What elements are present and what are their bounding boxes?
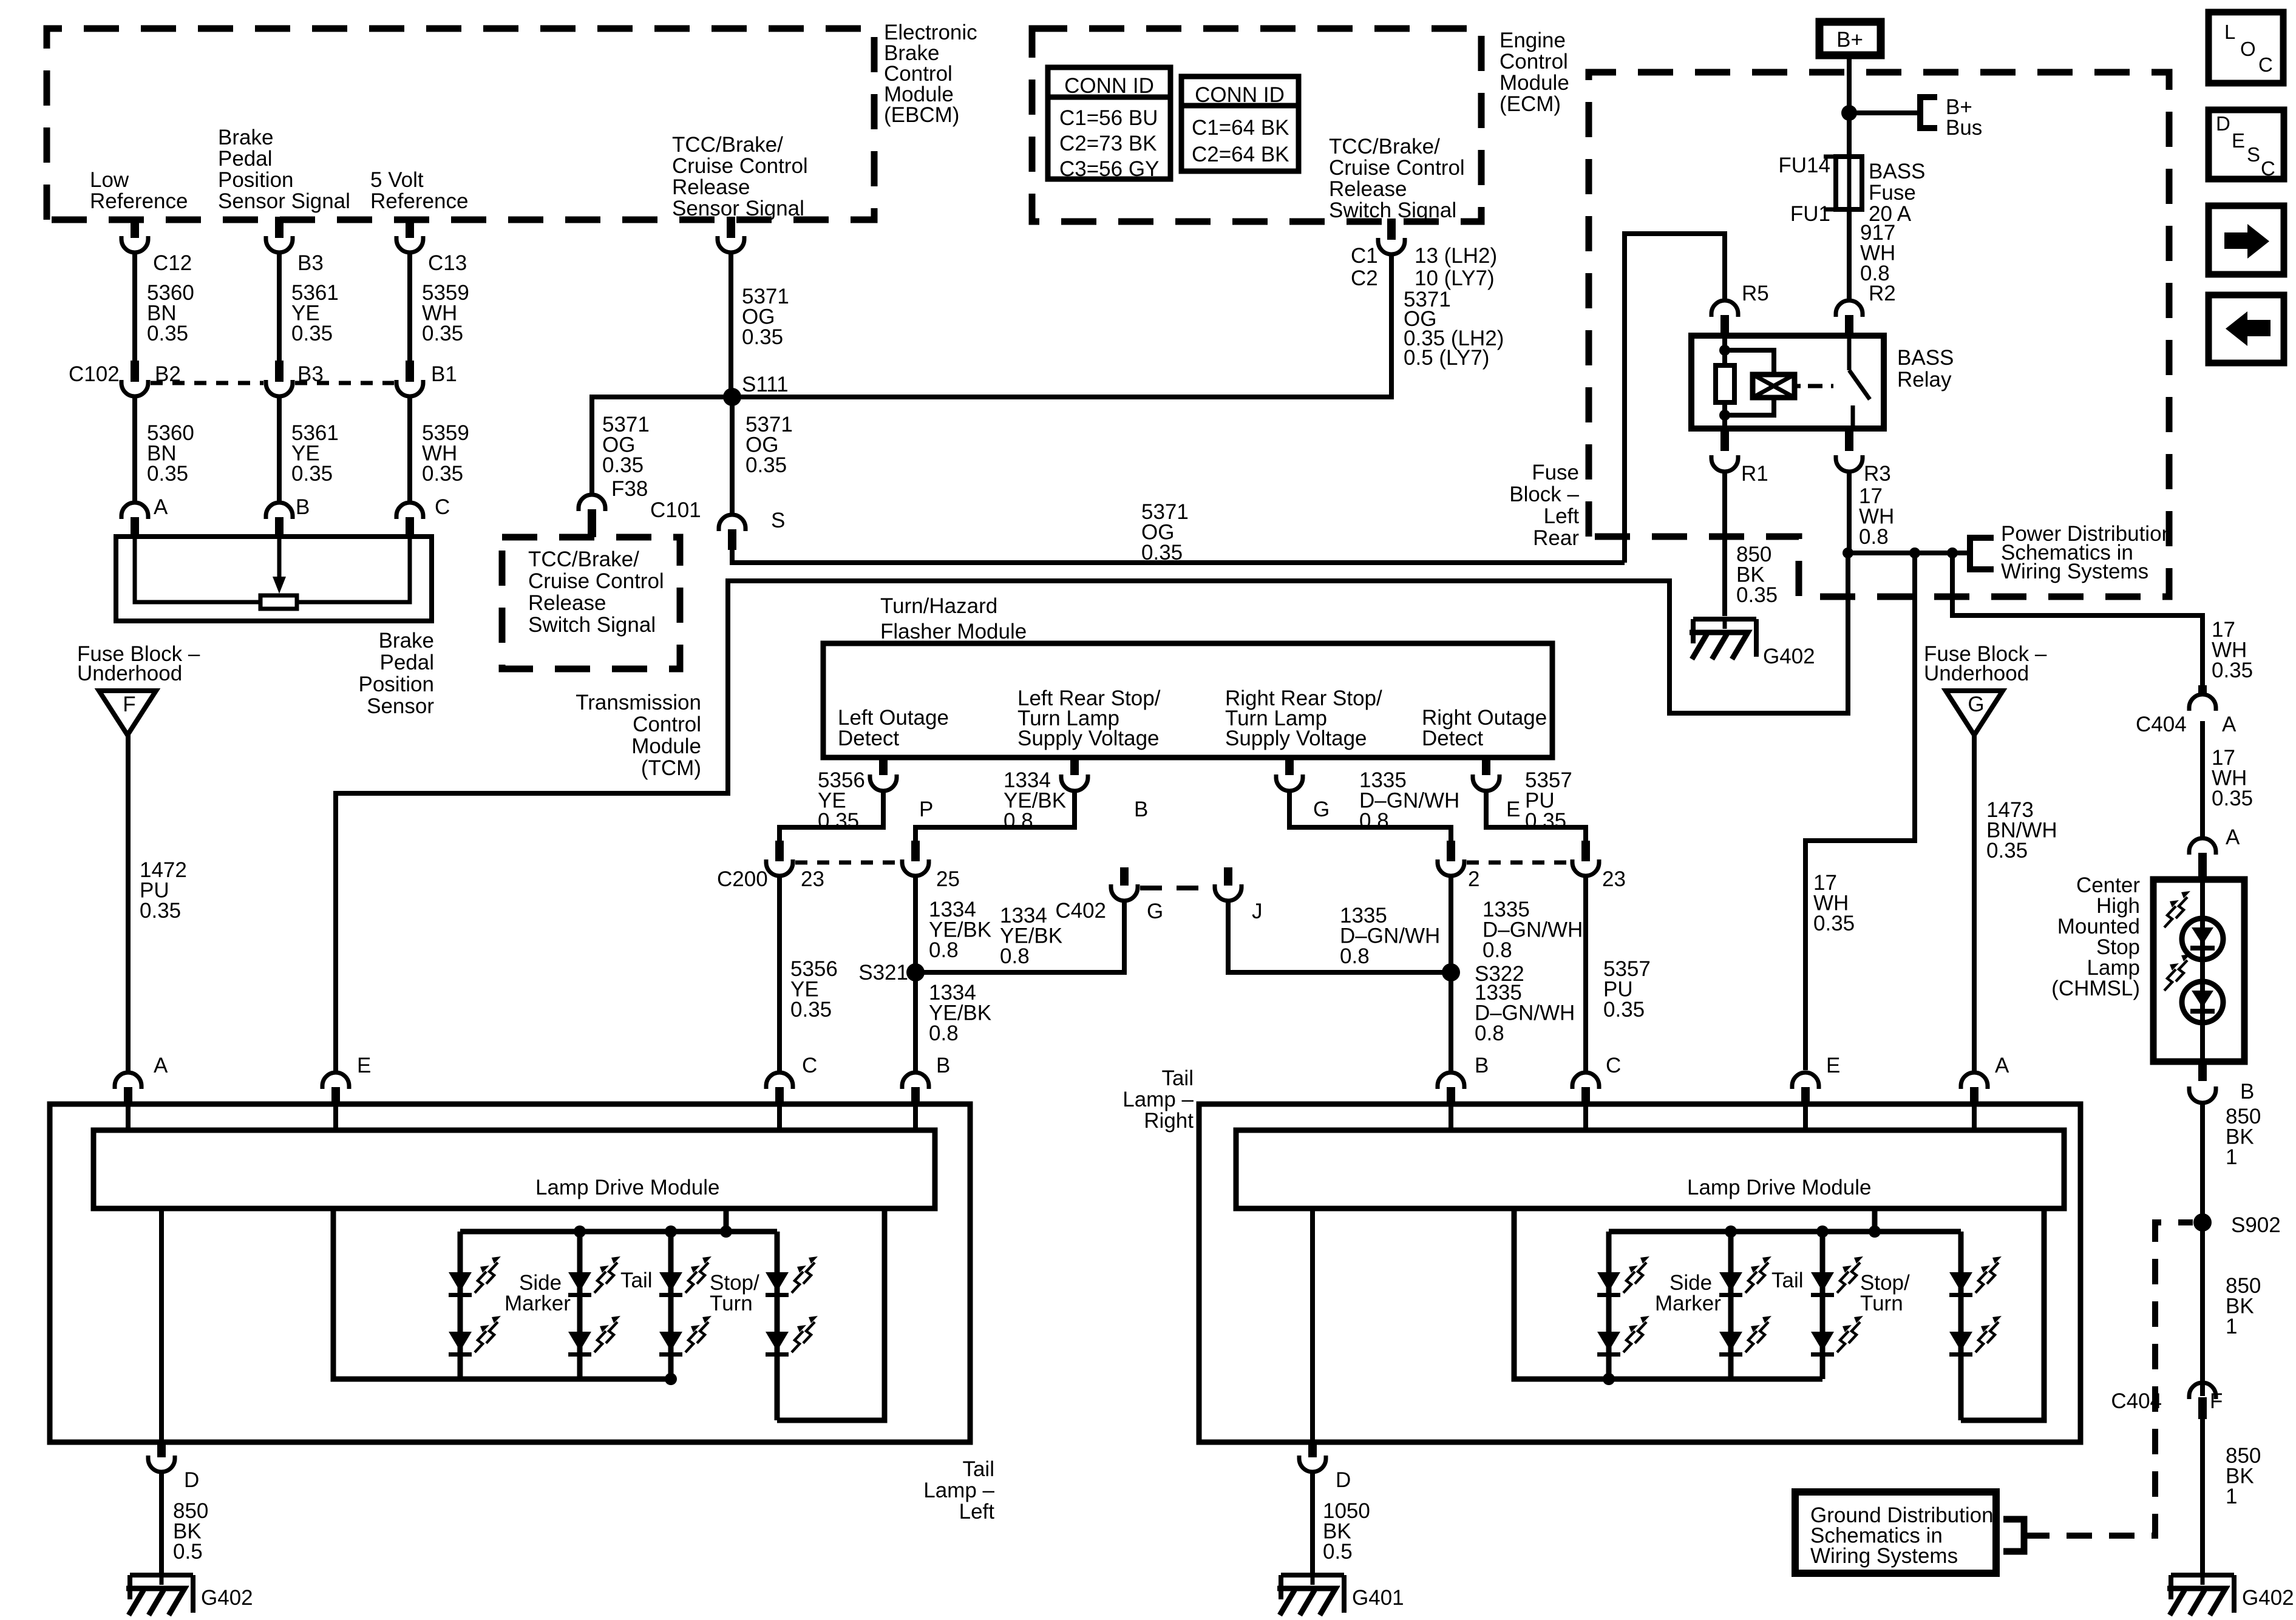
wire 5360 BN 0.35 (C102 B2 to sensor pin A)	[132, 395, 137, 501]
svg-text:B1: B1	[431, 362, 457, 386]
feed wire from Lamp Drive Module to LED bus (right)	[1872, 1208, 1878, 1232]
svg-text:G402: G402	[201, 1586, 253, 1610]
svg-text:F38: F38	[611, 477, 648, 501]
svg-text:CONN ID: CONN ID	[1195, 83, 1285, 107]
ground G402 (left tail lamp)	[130, 1573, 193, 1578]
svg-text:C: C	[1606, 1054, 1621, 1077]
component box Center High Mounted Stop Lamp (CHMSL)	[2153, 879, 2244, 1062]
junction dot (17WH to CHMSL)	[1947, 547, 1958, 558]
dashed harness line C402	[1140, 886, 1214, 890]
wire 1334 YE/BK from B to C200 pin 25	[915, 790, 1075, 847]
svg-text:0.35: 0.35	[147, 462, 188, 486]
svg-text:(CHMSL): (CHMSL)	[2051, 977, 2140, 1000]
svg-text:C: C	[435, 495, 450, 519]
wire 5371 OG coil feed from C101/S-wire up to R5	[1625, 234, 1725, 563]
relay switch common from R2	[1847, 336, 1852, 370]
svg-text:Turn/Hazard: Turn/Hazard	[880, 594, 997, 618]
connector C404 pin A	[2198, 685, 2207, 694]
right lamp internal pin wires into Lamp Drive Module	[1449, 1104, 1453, 1130]
connector pin R5 of BASS Relay	[1711, 300, 1738, 317]
LED string Stop/Turn (right lamp)	[1958, 1232, 1964, 1420]
connector pin R1 of BASS Relay	[1720, 429, 1729, 451]
connector C102 pin B2	[131, 361, 139, 382]
svg-text:(EBCM): (EBCM)	[884, 103, 959, 127]
svg-text:Switch Signal: Switch Signal	[528, 613, 656, 637]
svg-text:B3: B3	[297, 251, 324, 275]
svg-text:Engine: Engine	[1500, 29, 1566, 52]
component box Brake Pedal Position Sensor	[116, 537, 432, 621]
svg-text:0.35: 0.35	[2212, 659, 2253, 682]
dashed harness line C200 right pair	[1467, 861, 1570, 865]
svg-text:D: D	[1336, 1468, 1351, 1492]
connector pin R2 of BASS Relay	[1836, 300, 1863, 317]
wire 17 WH 0.35 from C404 A to CHMSL A	[2200, 721, 2205, 838]
svg-text:S: S	[771, 509, 785, 532]
svg-text:O: O	[2240, 38, 2256, 60]
connector C200 pin 23 (right)	[1581, 841, 1590, 861]
LED string Tail (right lamp)	[1820, 1232, 1826, 1379]
sensor internal wire from pin A to resistor	[135, 537, 260, 602]
ground G402 (right, CHMSL)	[2171, 1573, 2234, 1578]
svg-text:C1: C1	[1351, 244, 1378, 268]
wire 1334 YE/BK 0.8 from C200 25 to S321	[913, 875, 918, 972]
svg-text:R3: R3	[1864, 462, 1891, 486]
wire 17 WH 0.35 from junction to C404 A (CHMSL feed)	[1952, 553, 2203, 685]
svg-text:0.8: 0.8	[929, 1022, 959, 1045]
connector pin C12 of EBCM	[131, 217, 139, 238]
svg-text:Sensor: Sensor	[367, 694, 434, 718]
svg-text:S321: S321	[858, 961, 908, 985]
svg-text:0.35: 0.35	[2212, 787, 2253, 810]
svg-text:10 (LY7): 10 (LY7)	[1415, 266, 1495, 290]
svg-text:C2=64 BK: C2=64 BK	[1192, 143, 1289, 166]
fuse FU14/FU1 BASS Fuse 20 A	[1836, 157, 1862, 209]
connector pin C of left tail lamp	[766, 1073, 793, 1089]
svg-text:Block –: Block –	[1509, 483, 1579, 506]
connector C102 pin B1	[406, 361, 414, 382]
svg-text:C200: C200	[717, 867, 768, 891]
dashed harness line C200 left pair	[795, 861, 900, 865]
svg-text:R5: R5	[1742, 282, 1769, 305]
svg-text:Supply Voltage: Supply Voltage	[1017, 727, 1160, 750]
LED string Side Marker (right lamp)	[1606, 1232, 1612, 1379]
module box Turn/Hazard Flasher Module	[823, 643, 1552, 757]
junction dot at R3 wire and 17WH bus	[1843, 547, 1853, 558]
svg-text:0.35: 0.35	[291, 322, 333, 345]
junction dot at B+ bus tap	[1841, 105, 1857, 121]
svg-text:Release: Release	[1329, 177, 1407, 201]
svg-text:E: E	[1506, 798, 1520, 821]
svg-text:Position: Position	[358, 673, 434, 696]
relay actuation dashed link	[1797, 384, 1801, 388]
svg-text:Brake: Brake	[218, 126, 273, 149]
svg-text:C101: C101	[650, 498, 701, 522]
svg-text:Control: Control	[1500, 50, 1568, 73]
reference box Ground Distribution Schematics in Wiring Systems	[1795, 1492, 1996, 1573]
svg-text:TCC/Brake/: TCC/Brake/	[672, 133, 783, 157]
svg-text:Brake: Brake	[379, 629, 434, 652]
wire 1335 D-GN/WH 0.8 from S322 to right lamp B	[1449, 972, 1453, 1071]
left Stop/Turn return wire	[777, 1208, 885, 1420]
svg-text:C2: C2	[1351, 266, 1378, 290]
svg-text:G: G	[1968, 693, 1984, 716]
svg-text:0.35: 0.35	[602, 453, 644, 477]
svg-text:F: F	[123, 693, 135, 716]
svg-text:0.35: 0.35	[742, 325, 783, 349]
svg-text:Supply Voltage: Supply Voltage	[1225, 727, 1367, 750]
wire 5361 YE 0.35 (C102 B3 to sensor pin B)	[277, 395, 282, 501]
svg-text:Module: Module	[631, 734, 701, 758]
svg-text:Transmission: Transmission	[576, 691, 701, 714]
svg-text:R2: R2	[1869, 282, 1896, 305]
svg-text:Cruise Control: Cruise Control	[1329, 156, 1465, 180]
bracket from Ground Distribution box	[2003, 1519, 2024, 1551]
svg-text:C: C	[2258, 53, 2273, 76]
ground G401 (right tail lamp)	[1281, 1573, 1344, 1578]
svg-text:23: 23	[1602, 867, 1626, 891]
LED string 2 (right lamp)	[1728, 1232, 1734, 1379]
svg-text:S902: S902	[2231, 1213, 2281, 1237]
dashed harness line of connector C102	[151, 381, 263, 385]
icon arrow left	[2209, 295, 2284, 363]
CHMSL internal wire	[2200, 879, 2205, 1062]
connector C404 pin F	[2189, 1383, 2216, 1399]
wire 5360 BN 0.35 (EBCM C12 to C102 B2)	[132, 251, 137, 371]
svg-text:0.35: 0.35	[1603, 998, 1645, 1022]
resistor element of Brake Pedal Position Sensor	[260, 595, 297, 609]
svg-text:Module: Module	[1500, 71, 1569, 95]
connector C402 pin J	[1224, 867, 1232, 886]
svg-text:0.35: 0.35	[1986, 839, 2028, 863]
relay coil wiring	[1725, 350, 1774, 374]
connector pin E of left tail lamp	[322, 1073, 349, 1089]
wire 1473 BN/WH 0.35 from fuse block G to right tail lamp A	[1972, 734, 1977, 1071]
connector pin A of Brake Pedal Position Sensor	[121, 503, 148, 519]
right lamp LED return bus	[1514, 1208, 1822, 1379]
svg-text:A: A	[154, 1054, 168, 1077]
wire 5359 WH 0.35 (C102 B1 to sensor pin C)	[407, 395, 412, 501]
svg-text:Flasher Module: Flasher Module	[880, 620, 1027, 643]
module box Transmission Control Module (TCM), dashed outline	[502, 537, 680, 669]
svg-text:F: F	[2210, 1389, 2223, 1413]
svg-text:C1=64 BK: C1=64 BK	[1192, 116, 1289, 140]
svg-text:C3=56 GY: C3=56 GY	[1059, 157, 1159, 181]
svg-text:B: B	[296, 495, 310, 519]
svg-text:Marker: Marker	[504, 1292, 571, 1315]
connector C402 pin G	[1120, 867, 1129, 886]
connector pin B of Brake Pedal Position Sensor	[266, 503, 293, 519]
svg-text:G402: G402	[1763, 645, 1815, 668]
svg-text:P: P	[919, 798, 933, 821]
svg-text:Fuse: Fuse	[1869, 181, 1916, 205]
sensor internal wire from pin C to resistor	[297, 537, 410, 602]
symbol B+ Bus bracket	[1920, 97, 1937, 128]
connector pin B of CHMSL	[2198, 1062, 2207, 1081]
splice S111	[723, 388, 741, 406]
connector pin D of left tail lamp	[157, 1440, 166, 1457]
left lamp LED return bus	[333, 1208, 671, 1379]
feed wire from Lamp Drive Module to LED bus (left)	[724, 1208, 729, 1232]
svg-text:TCC/Brake/: TCC/Brake/	[1329, 135, 1440, 158]
svg-text:Marker: Marker	[1655, 1292, 1721, 1315]
svg-text:0.8: 0.8	[929, 938, 959, 962]
wire 5371 OG 0.35 from S111 down to C101 S	[730, 397, 735, 515]
svg-text:Tail: Tail	[962, 1457, 994, 1481]
connector pin F38 of TCM	[579, 495, 605, 511]
svg-text:Position: Position	[218, 168, 294, 192]
svg-text:C404: C404	[2136, 713, 2187, 736]
connector pin of EBCM to S111 (TCC/Brake/Cruise Control Release Sensor Signal)	[727, 217, 735, 238]
ground G402 (relay coil ground)	[1693, 617, 1756, 622]
svg-text:Left: Left	[959, 1500, 995, 1523]
junction dot on left return bus	[665, 1373, 677, 1385]
svg-text:C1=56 BU: C1=56 BU	[1059, 106, 1158, 130]
wire 17 WH 0.8 from R3 down to junction	[1847, 472, 1852, 553]
svg-text:J: J	[1252, 900, 1263, 923]
svg-text:A: A	[2226, 825, 2240, 849]
splice S902	[2193, 1213, 2212, 1232]
svg-text:Detect: Detect	[838, 727, 899, 750]
wire 5357 PU 0.35 from C200 23 to right lamp C	[1583, 875, 1588, 1071]
svg-text:0.35: 0.35	[291, 462, 333, 486]
svg-text:CONN ID: CONN ID	[1064, 74, 1154, 98]
table CONN ID for ECM connectors	[1181, 76, 1299, 171]
connector pin E of flasher module	[1482, 757, 1490, 775]
wire 850 BK 0.35 from R1 to ground G402	[1722, 472, 1727, 616]
module box Engine Control Module (ECM), dashed outline	[1032, 29, 1481, 222]
wire 5361 YE 0.35 (EBCM B3 to C102 B3)	[277, 251, 282, 371]
svg-text:Reference: Reference	[90, 189, 188, 213]
svg-text:R1: R1	[1741, 462, 1768, 486]
svg-text:5 Volt: 5 Volt	[370, 168, 424, 192]
relay internal resistor	[1716, 365, 1734, 402]
junction dots on right LED bus	[1725, 1225, 1737, 1238]
LED string Stop/Turn (left lamp)	[775, 1232, 780, 1420]
svg-text:Relay: Relay	[1897, 368, 1952, 391]
relay coil branch wire	[1722, 336, 1727, 365]
svg-text:C12: C12	[153, 251, 192, 275]
svg-text:Underhood: Underhood	[1924, 662, 2029, 685]
svg-text:C: C	[2261, 157, 2275, 180]
wire 917 WH 0.8 from fuse to R2	[1847, 209, 1852, 300]
svg-text:Pedal: Pedal	[379, 651, 434, 674]
svg-text:13 (LH2): 13 (LH2)	[1415, 244, 1497, 268]
svg-text:FU1: FU1	[1790, 202, 1830, 226]
junction dot on right return bus	[1603, 1373, 1615, 1385]
connector C101 pin S	[719, 515, 746, 531]
relay coil (solenoid with X)	[1753, 374, 1795, 398]
wiper arrow from pin B	[277, 537, 282, 577]
svg-text:0.35: 0.35	[790, 998, 832, 1022]
svg-text:Lamp –: Lamp –	[923, 1479, 994, 1502]
svg-text:A: A	[154, 495, 168, 519]
svg-text:0.5: 0.5	[173, 1540, 203, 1564]
wire 850 BK 1 from C404 F to ground G402	[2200, 1419, 2205, 1575]
svg-text:Wiring Systems: Wiring Systems	[1810, 1544, 1958, 1568]
connector pin C of Brake Pedal Position Sensor	[396, 503, 423, 519]
svg-text:A: A	[2222, 713, 2237, 736]
svg-text:D: D	[184, 1468, 199, 1492]
svg-text:Bus: Bus	[1946, 116, 1982, 140]
connector C200 pin 25	[911, 841, 920, 861]
svg-text:Rear: Rear	[1533, 526, 1579, 550]
relay box BASS Relay	[1691, 336, 1884, 429]
svg-text:BASS: BASS	[1869, 160, 1925, 183]
svg-text:Low: Low	[90, 168, 129, 192]
svg-text:(TCM): (TCM)	[641, 756, 701, 780]
wire 1335 D-GN/WH 0.8 from C402 J to S322	[1228, 900, 1451, 972]
svg-text:0.35: 0.35	[1141, 541, 1183, 564]
svg-text:Sensor Signal: Sensor Signal	[218, 189, 350, 213]
right Stop/Turn return wire	[1961, 1208, 2044, 1420]
wire 5357 PU from E to C200 pin 23 (right)	[1486, 790, 1586, 847]
svg-text:G401: G401	[1352, 1586, 1404, 1610]
connector pin B of right tail lamp	[1438, 1073, 1464, 1089]
module box Lamp Drive Module (left)	[93, 1130, 935, 1208]
svg-text:0.5: 0.5	[1323, 1540, 1353, 1564]
svg-text:Right: Right	[1144, 1109, 1194, 1133]
relay switch blade	[1849, 370, 1870, 399]
connector pin G of flasher module	[1285, 757, 1294, 775]
svg-text:0.8: 0.8	[1859, 525, 1889, 549]
wire 1472 PU 0.35 from fuse block F to left tail lamp A	[126, 735, 131, 1071]
svg-text:FU14: FU14	[1778, 154, 1830, 177]
svg-text:23: 23	[801, 867, 824, 891]
svg-text:Release: Release	[528, 591, 606, 615]
svg-text:E: E	[357, 1054, 371, 1077]
wire to B+ Bus bracket	[1849, 110, 1920, 115]
wire 850 BK 1 from CHMSL B to S902	[2200, 1103, 2205, 1396]
svg-text:Tail: Tail	[1161, 1066, 1194, 1090]
connector pin E of right tail lamp	[1792, 1073, 1819, 1089]
left lamp ground pin wire D	[159, 1208, 164, 1440]
connector pin C of right tail lamp	[1572, 1073, 1599, 1089]
connector pin C13 of EBCM	[406, 217, 414, 238]
svg-text:C402: C402	[1055, 899, 1106, 923]
svg-text:B+: B+	[1836, 28, 1863, 52]
splice S321	[906, 963, 925, 981]
svg-text:0.35: 0.35	[147, 322, 188, 345]
wire 5371 OG from ECM down and left to S111	[732, 253, 1391, 397]
wire 5371 OG 0.35 from S111 left to F38 (TCM)	[592, 397, 732, 495]
connector C200 pin 23 (left)	[775, 841, 784, 861]
svg-text:Release: Release	[672, 175, 750, 199]
svg-text:1: 1	[2226, 1145, 2237, 1169]
svg-text:D: D	[2216, 112, 2230, 135]
wire 17 WH 0.35 from junction down-left to left tail lamp E (via loop)	[336, 553, 1848, 1071]
svg-text:Detect: Detect	[1422, 727, 1483, 750]
icon arrow right	[2209, 206, 2284, 274]
svg-text:Wiring Systems: Wiring Systems	[2001, 560, 2148, 583]
svg-text:E: E	[2232, 129, 2245, 152]
connector pin D of right tail lamp	[1308, 1440, 1317, 1457]
svg-text:C: C	[802, 1054, 817, 1077]
connector pin A of CHMSL	[2189, 838, 2216, 855]
dashed reference wire from Ground Distribution box to S902	[2024, 1222, 2193, 1536]
svg-text:Tail: Tail	[1771, 1269, 1804, 1292]
svg-text:E: E	[1826, 1054, 1840, 1077]
wire 850 BK 0.5 from left lamp D to ground G402	[159, 1472, 164, 1575]
CHMSL LED 1	[2182, 918, 2223, 960]
svg-text:Cruise Control: Cruise Control	[672, 154, 808, 178]
splice S322	[1442, 963, 1460, 981]
LED string Side Marker (left lamp)	[458, 1232, 463, 1379]
wire 5371 OG 0.35 from C101 S to relay coil feed	[732, 550, 1625, 563]
connector pin R3 of BASS Relay	[1845, 429, 1853, 451]
svg-text:Lamp Drive Module: Lamp Drive Module	[1687, 1176, 1871, 1199]
module box EBCM (Electronic Brake Control Module), dashed outline	[47, 29, 874, 220]
power symbol B+	[1819, 22, 1881, 55]
svg-text:C102: C102	[69, 362, 120, 386]
svg-text:0.35: 0.35	[422, 322, 463, 345]
icon DESC	[2209, 110, 2284, 179]
svg-text:L: L	[2224, 21, 2235, 43]
svg-text:Sensor Signal: Sensor Signal	[672, 197, 804, 220]
connector C200 pin 2	[1447, 841, 1455, 861]
svg-text:Control: Control	[633, 713, 701, 736]
CHMSL LED 2	[2182, 981, 2223, 1023]
svg-text:S: S	[2247, 143, 2260, 166]
connector C102 pin B3	[275, 361, 284, 382]
svg-text:Pedal: Pedal	[218, 147, 273, 171]
wire 5359 WH 0.35 (EBCM C13 to C102 B1)	[407, 251, 412, 371]
junction dots on left LED bus	[574, 1225, 586, 1238]
connector pin B of flasher module	[1070, 757, 1079, 775]
left lamp internal pin wires into Lamp Drive Module	[126, 1104, 131, 1130]
svg-text:Reference: Reference	[370, 189, 468, 213]
svg-text:0.8: 0.8	[1000, 944, 1030, 968]
LED string Tail (left lamp)	[668, 1232, 674, 1379]
connector pin A of left tail lamp	[115, 1073, 141, 1089]
svg-text:0.8: 0.8	[1483, 938, 1512, 962]
right lamp ground pin wire D	[1310, 1208, 1315, 1440]
component box Tail Lamp - Right	[1199, 1104, 2080, 1442]
svg-text:0.35: 0.35	[1813, 912, 1855, 935]
connector pin P of flasher module	[879, 757, 888, 775]
svg-text:B: B	[1475, 1054, 1489, 1077]
wire 5371 OG 0.35 from EBCM to S111	[729, 251, 733, 397]
LED string 2 (left lamp)	[577, 1232, 583, 1379]
svg-text:G: G	[1147, 900, 1163, 923]
svg-text:B: B	[2240, 1080, 2254, 1103]
svg-text:Turn: Turn	[710, 1292, 753, 1315]
relay switch fixed contact	[1851, 405, 1855, 429]
wire 5356 YE 0.35 from C200 23 to left lamp C	[777, 875, 782, 1071]
connector pin B3 of EBCM	[275, 217, 284, 238]
svg-text:Turn: Turn	[1860, 1292, 1903, 1315]
table CONN ID for EBCM connectors	[1048, 67, 1170, 179]
svg-text:S111: S111	[742, 373, 789, 396]
fuse block box Fuse Block - Left Rear, dashed outline	[1589, 72, 2169, 597]
wire 1334 YE/BK 0.8 from S321 to left lamp B	[913, 972, 918, 1071]
svg-text:0.35: 0.35	[140, 899, 181, 923]
svg-text:0.5 (LY7): 0.5 (LY7)	[1404, 346, 1489, 370]
icon LOC	[2209, 12, 2283, 83]
wire 1334 YE/BK 0.8 from S321 to C402 G	[915, 899, 1124, 972]
component box Tail Lamp - Left	[50, 1104, 970, 1442]
svg-text:Left: Left	[1544, 504, 1580, 528]
connector pin C1/C2 of ECM	[1387, 219, 1396, 240]
svg-text:1: 1	[2226, 1315, 2237, 1338]
svg-text:Cruise Control: Cruise Control	[528, 569, 664, 593]
svg-text:25: 25	[936, 867, 960, 891]
junction dot in relay (bottom)	[1719, 410, 1730, 421]
svg-text:Tail: Tail	[620, 1269, 653, 1292]
wire 5356 YE from P to C200 pin 23	[779, 790, 883, 847]
wire 1335 D-GN/WH 0.8 from C200 2 to S322	[1449, 875, 1453, 972]
wire from B+ down to fuse	[1847, 55, 1852, 157]
wire 1335 D-GN/WH from G to C200 pin 2	[1289, 790, 1451, 847]
